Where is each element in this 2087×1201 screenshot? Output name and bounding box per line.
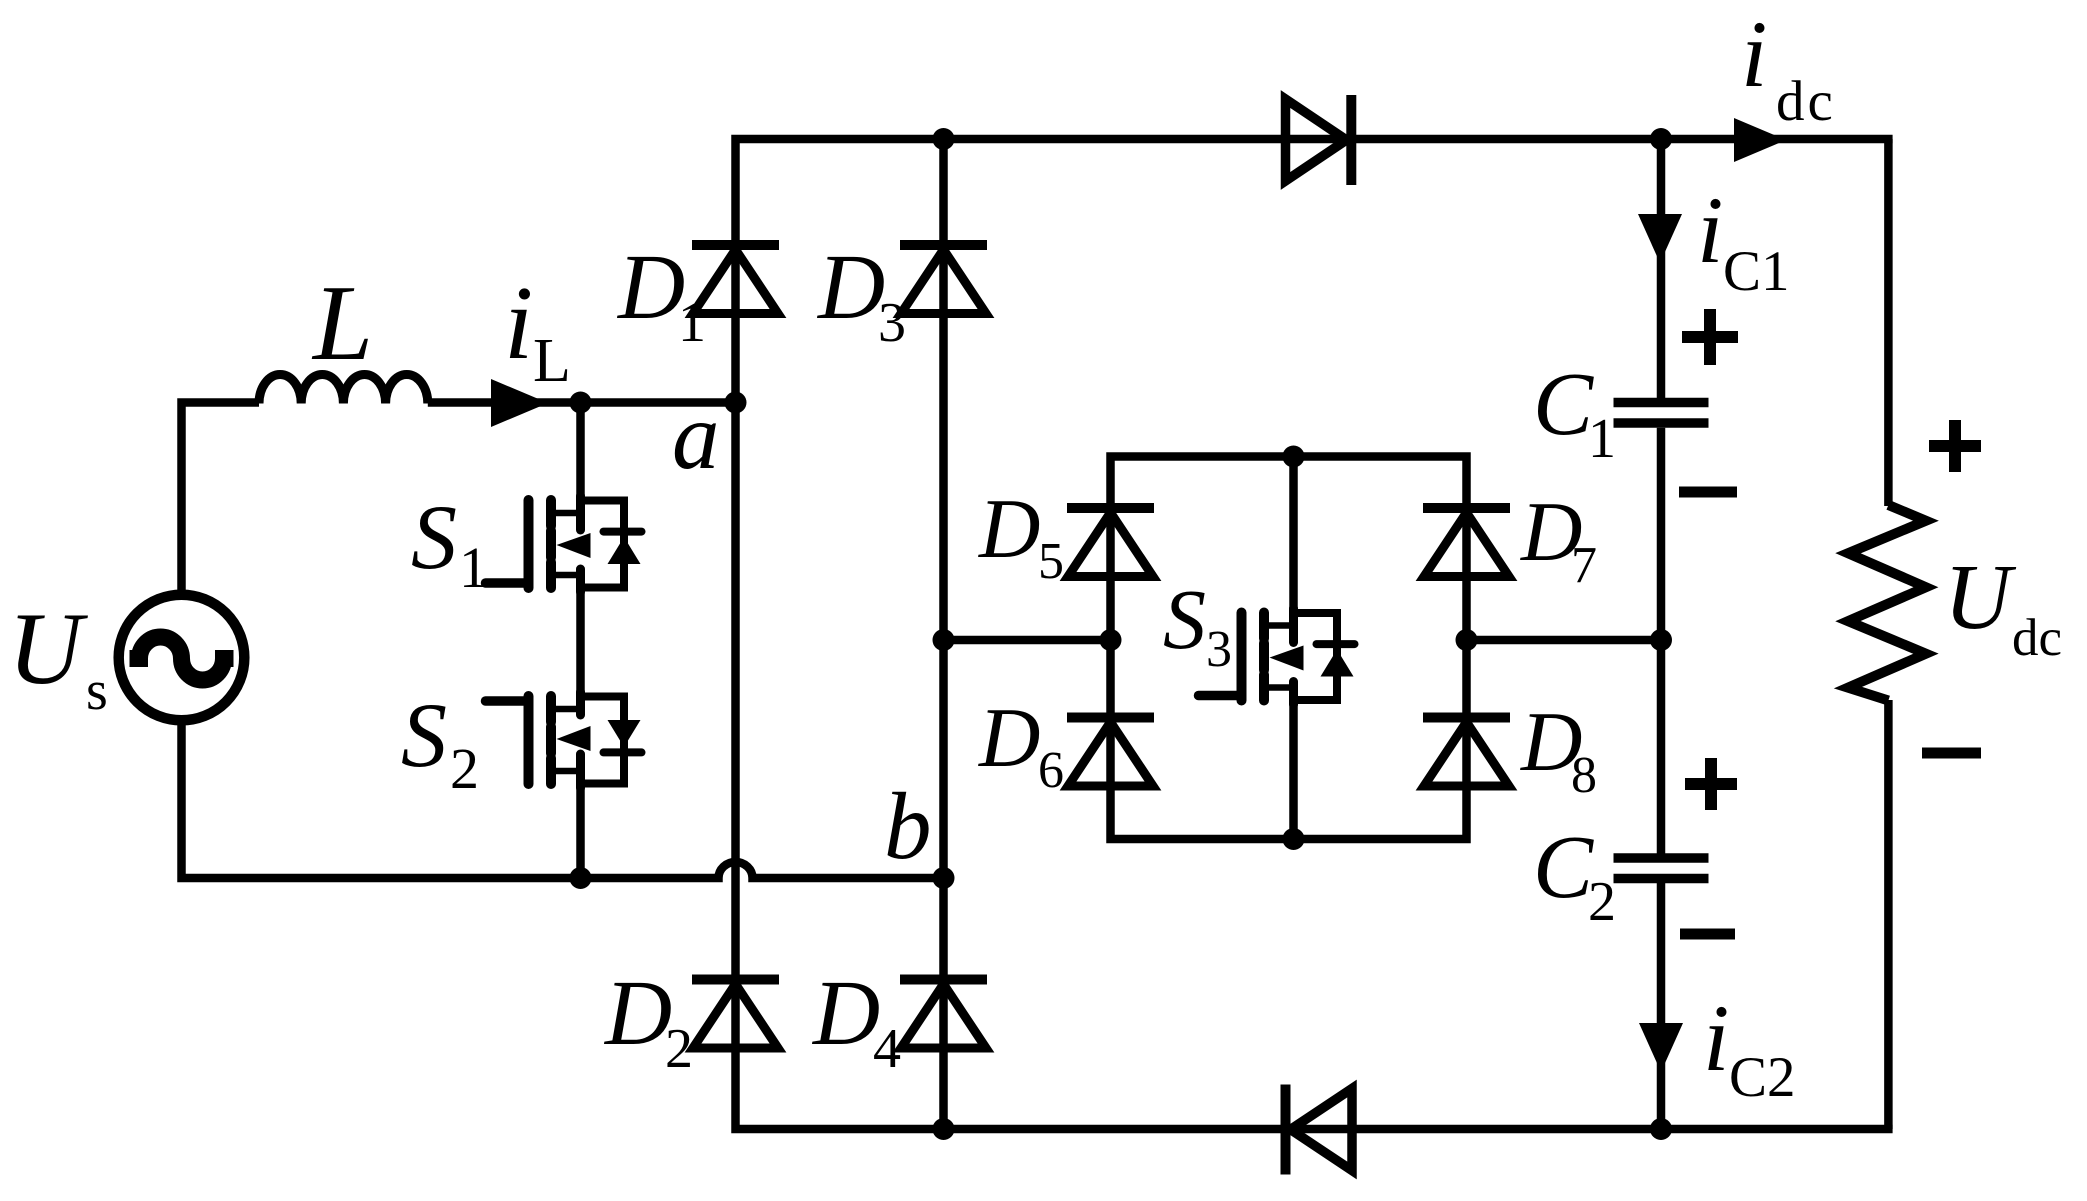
svg-text:7: 7 <box>1571 537 1597 594</box>
wire link column to bridge left <box>944 636 1111 645</box>
AC source sine glyph <box>130 637 234 680</box>
plus sign U_dc <box>1929 420 1981 472</box>
diode D5 <box>1067 508 1154 577</box>
wire inductor to node a <box>428 398 736 407</box>
wire D3-D4 column <box>939 139 948 1129</box>
svg-text:b: b <box>884 773 932 879</box>
svg-text:C2: C2 <box>1729 1046 1796 1109</box>
svg-text:2: 2 <box>665 1018 693 1080</box>
svg-text:s: s <box>86 660 108 722</box>
capacitor C1 plates <box>1614 403 1709 424</box>
node dot bridge right mid <box>1456 629 1478 651</box>
node a dot <box>725 392 747 414</box>
svg-text:D: D <box>603 962 672 1065</box>
svg-text:1: 1 <box>1588 408 1616 470</box>
svg-text:3: 3 <box>1206 621 1232 678</box>
plus sign C1 <box>1682 309 1738 365</box>
transistor S2 <box>486 692 642 788</box>
svg-text:4: 4 <box>873 1018 901 1080</box>
svg-text:L: L <box>311 264 373 383</box>
AC source U_s circle <box>119 595 245 721</box>
diode D1 <box>692 245 779 314</box>
arrow i_C1 <box>1638 214 1682 263</box>
svg-text:6: 6 <box>1038 742 1064 799</box>
diode D7 <box>1423 508 1510 577</box>
arrow i_dc <box>1734 118 1786 162</box>
svg-text:D: D <box>978 691 1040 785</box>
svg-text:D: D <box>816 236 885 339</box>
svg-text:S: S <box>401 684 447 786</box>
node dot bridge top center <box>1283 446 1305 468</box>
wire S-column upper <box>576 403 585 497</box>
diode D6 <box>1067 718 1154 787</box>
node dot bottom rail C column <box>1650 1118 1672 1140</box>
plus sign C2 <box>1685 758 1737 810</box>
wire S-column lower <box>576 788 585 878</box>
svg-text:i: i <box>1697 177 1723 283</box>
node dot S column b-wire <box>570 867 592 889</box>
svg-text:C1: C1 <box>1723 240 1790 303</box>
wire link bridge right to C column <box>1467 636 1662 645</box>
node dot bridge bottom center <box>1283 828 1305 850</box>
svg-text:U: U <box>1944 546 2017 649</box>
minus sign C2 <box>1680 929 1735 940</box>
node dot top rail D3 <box>933 128 955 150</box>
wire right rail lower <box>1884 700 1893 1129</box>
svg-text:a: a <box>672 383 720 489</box>
svg-text:2: 2 <box>450 736 479 801</box>
svg-text:U: U <box>8 592 88 706</box>
wire S3 column upper <box>1289 457 1298 609</box>
resistor U_dc load <box>1848 505 1926 701</box>
svg-text:C: C <box>1533 818 1594 917</box>
svg-text:2: 2 <box>1588 871 1616 933</box>
svg-text:C: C <box>1533 355 1594 454</box>
wire S-column middle <box>576 592 585 692</box>
svg-text:1: 1 <box>459 535 488 600</box>
arrow i_L <box>491 379 548 427</box>
diode D3 <box>900 245 987 314</box>
svg-text:S: S <box>1163 571 1206 667</box>
wire C column lower <box>1657 883 1666 1129</box>
wire bridge frame <box>1111 457 1467 840</box>
svg-text:i: i <box>1741 1 1767 107</box>
svg-text:L: L <box>533 327 571 395</box>
diode D2 <box>692 980 779 1049</box>
node dot top rail C column <box>1650 128 1672 150</box>
svg-text:dc: dc <box>2012 609 2062 667</box>
diode D8 <box>1423 718 1510 787</box>
arrow i_C2 <box>1639 1023 1683 1072</box>
transistor S1 <box>486 496 642 592</box>
wire S3 column lower <box>1289 705 1298 840</box>
svg-text:D: D <box>811 962 880 1065</box>
wire C column upper <box>1657 139 1666 398</box>
svg-text:D: D <box>616 236 685 339</box>
diode D4 <box>900 980 987 1049</box>
bottom rail diode <box>1286 1085 1353 1175</box>
minus sign C1 <box>1679 487 1737 498</box>
node dot bottom rail D4 <box>933 1118 955 1140</box>
svg-text:S: S <box>411 486 457 588</box>
svg-text:5: 5 <box>1038 533 1064 590</box>
svg-text:dc: dc <box>1776 70 1836 133</box>
node dot mid column <box>933 629 955 651</box>
svg-text:1: 1 <box>678 292 706 354</box>
svg-text:i: i <box>1703 985 1729 1091</box>
capacitor C2 plates <box>1614 858 1709 879</box>
wire source upper lead <box>182 403 260 599</box>
svg-text:8: 8 <box>1571 747 1597 804</box>
svg-text:3: 3 <box>878 292 906 354</box>
svg-text:i: i <box>504 264 533 381</box>
svg-text:D: D <box>978 482 1040 576</box>
transistor S3 <box>1199 609 1355 705</box>
node dot i_L junction <box>570 392 592 414</box>
minus sign U_dc <box>1922 748 1981 759</box>
node dot bridge left mid <box>1100 629 1122 651</box>
node dot C column mid <box>1650 629 1672 651</box>
wire top rail, left D1-D2 column and bottom rail <box>736 139 1893 1129</box>
wire C column middle <box>1657 428 1666 854</box>
wire node b rail with hop over D2 column <box>182 717 944 878</box>
top rail diode <box>1286 95 1352 185</box>
wire right rail upper <box>1884 139 1893 506</box>
inductor L coil <box>259 375 428 404</box>
node b dot <box>933 867 955 889</box>
